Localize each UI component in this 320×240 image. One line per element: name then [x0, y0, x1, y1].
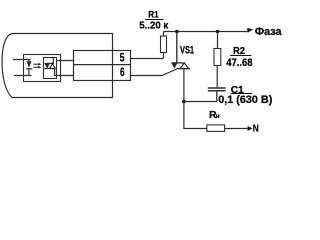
node at VS1 [175, 30, 179, 34]
wire junction down to load [184, 102, 207, 129]
node bottom junction [182, 100, 186, 104]
optocoupler LED cathode lead [28, 69, 30, 75]
resistor R1 [161, 36, 167, 53]
underline R2 [230, 55, 251, 57]
terminal block box 5/6 [74, 51, 131, 81]
svg-text:R1: R1 [148, 10, 158, 20]
triac VS1 top bar [171, 62, 183, 64]
svg-text:VS1: VS1 [180, 45, 194, 57]
terminal block divider [74, 64, 131, 66]
photo-triac left triangle [44, 63, 50, 68]
terminal arrow N [248, 126, 253, 131]
svg-text:6: 6 [120, 65, 125, 79]
wire phase rail [164, 31, 248, 33]
svg-text:н: н [216, 113, 220, 120]
capacitor C1 bottom plate [208, 90, 226, 92]
node at R2 [216, 30, 220, 34]
triac VS1 right triangle [180, 63, 188, 69]
wire opto to terminal 5 [57, 60, 74, 62]
light arrow 1 [33, 63, 39, 65]
svg-text:N: N [253, 124, 259, 135]
photo-triac box [44, 58, 57, 79]
resistor R2 bottom lead [216, 66, 218, 88]
underline C1 [231, 93, 253, 95]
wire LED cathode [14, 75, 32, 77]
wire pin5 to R1 [131, 58, 164, 60]
optocoupler U2 box [24, 55, 61, 82]
wire junction to C1 [184, 101, 217, 103]
optocoupler LED VD [27, 61, 32, 68]
resistor R2 top lead [217, 32, 219, 49]
triac VS1 left triangle [171, 63, 177, 69]
triac VS1 gate wire to pin 6 [131, 69, 177, 76]
module body U1 (rounded-left box) [2, 34, 112, 98]
resistor Rn [207, 125, 225, 131]
thyristor VS1 top lead [176, 32, 178, 63]
photo-triac right triangle [50, 63, 55, 68]
photo-triac terminal to box top [52, 58, 54, 64]
photo-triac gate wire [55, 69, 74, 76]
capacitor C1 top plate [208, 87, 226, 89]
underline R1 [145, 19, 163, 21]
svg-text:5..20 к: 5..20 к [139, 21, 169, 32]
light arrow 2 [33, 66, 39, 68]
optocoupler LED cathode bar [26, 68, 32, 70]
triac VS1 bottom bar [177, 68, 191, 70]
svg-text:47..68: 47..68 [226, 57, 252, 69]
svg-text:Фаза: Фаза [255, 26, 282, 38]
terminal arrow Фаза [247, 28, 253, 33]
resistor R1 bottom lead [163, 53, 165, 59]
photo-triac bottom bar [44, 68, 55, 70]
resistor R2 [214, 49, 221, 66]
wire LED anode [13, 59, 31, 61]
svg-text:5: 5 [120, 51, 125, 65]
wire Rn to N [225, 128, 248, 130]
svg-text:0,1 (630 В): 0,1 (630 В) [218, 94, 272, 106]
photo-triac top bar [44, 62, 54, 64]
resistor R1 top lead [163, 32, 165, 37]
triac VS1 bottom lead [183, 69, 185, 102]
capacitor C1 bottom lead [216, 91, 218, 101]
